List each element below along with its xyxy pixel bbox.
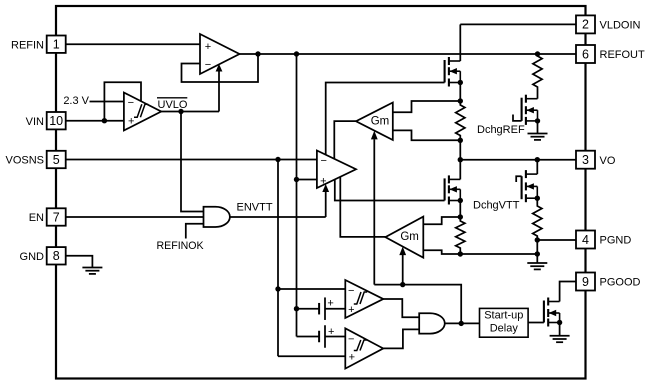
svg-text:2: 2 bbox=[582, 18, 589, 32]
svg-text:VO: VO bbox=[600, 155, 616, 167]
svg-text:VIN: VIN bbox=[26, 116, 44, 128]
svg-text:Delay: Delay bbox=[490, 323, 519, 335]
svg-text:REFIN: REFIN bbox=[11, 39, 44, 51]
svg-text:REFOUT: REFOUT bbox=[600, 49, 646, 61]
svg-text:3: 3 bbox=[582, 153, 589, 167]
svg-text:+: + bbox=[327, 298, 333, 310]
svg-text:5: 5 bbox=[53, 153, 60, 167]
svg-text:2.3 V: 2.3 V bbox=[63, 95, 89, 107]
svg-text:+: + bbox=[348, 304, 354, 316]
svg-text:+: + bbox=[128, 116, 134, 128]
svg-text:REFINOK: REFINOK bbox=[157, 240, 204, 252]
svg-text:6: 6 bbox=[582, 47, 589, 61]
svg-text:−: − bbox=[205, 59, 211, 71]
svg-text:VOSNS: VOSNS bbox=[5, 155, 44, 167]
svg-text:−: − bbox=[348, 334, 354, 346]
svg-text:VLDOIN: VLDOIN bbox=[600, 20, 641, 32]
svg-text:+: + bbox=[205, 41, 211, 53]
svg-text:+: + bbox=[328, 326, 334, 338]
svg-text:9: 9 bbox=[582, 275, 589, 289]
svg-text:DchgVTT: DchgVTT bbox=[473, 200, 520, 212]
svg-text:ENVTT: ENVTT bbox=[237, 201, 273, 213]
svg-text:4: 4 bbox=[582, 233, 589, 247]
svg-text:PGOOD: PGOOD bbox=[600, 277, 641, 289]
svg-text:Gm: Gm bbox=[400, 231, 419, 243]
svg-text:+: + bbox=[320, 175, 326, 187]
svg-text:−: − bbox=[348, 285, 354, 297]
svg-text:−: − bbox=[128, 97, 134, 109]
svg-text:PGND: PGND bbox=[600, 235, 632, 247]
svg-text:Gm: Gm bbox=[371, 116, 390, 128]
svg-text:UVLO: UVLO bbox=[158, 99, 188, 111]
svg-text:7: 7 bbox=[53, 210, 60, 224]
svg-text:DchgREF: DchgREF bbox=[477, 124, 525, 136]
svg-text:1: 1 bbox=[53, 38, 60, 52]
svg-text:Start-up: Start-up bbox=[484, 309, 523, 321]
svg-text:+: + bbox=[349, 352, 355, 364]
svg-text:−: − bbox=[320, 155, 326, 167]
svg-text:EN: EN bbox=[29, 212, 44, 224]
svg-text:10: 10 bbox=[49, 114, 63, 128]
svg-text:8: 8 bbox=[53, 249, 60, 263]
svg-text:GND: GND bbox=[20, 251, 45, 263]
